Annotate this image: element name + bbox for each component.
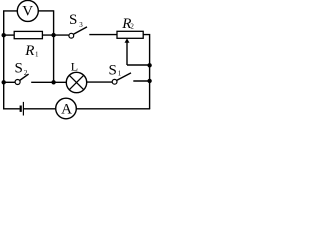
svg-text:1: 1	[35, 51, 39, 59]
svg-text:2: 2	[24, 69, 28, 77]
node S2-left junction	[2, 80, 6, 84]
wire lamp to S1	[87, 81, 113, 83]
wire voltmeter right to vertical bus	[38, 10, 53, 12]
wire middle vertical bus	[53, 10, 55, 82]
svg-text:S: S	[109, 62, 117, 78]
svg-text:3: 3	[79, 21, 83, 29]
wire battery to ammeter	[24, 108, 56, 110]
label S2	[15, 61, 28, 77]
label S1	[109, 62, 122, 78]
svg-text:V: V	[22, 3, 33, 19]
svg-text:L: L	[71, 60, 78, 74]
wire left vertical + bottom-left corner	[4, 11, 20, 109]
svg-text:S: S	[69, 12, 77, 28]
switch S2	[15, 74, 29, 84]
wire S2 to lamp	[31, 81, 66, 83]
wire S2 row left	[4, 81, 16, 83]
label S3	[69, 12, 83, 29]
rheostat R2	[117, 31, 143, 65]
battery	[21, 102, 24, 116]
label R1	[24, 43, 39, 59]
ammeter A	[56, 98, 77, 119]
node bus / lamp-row junction	[51, 80, 55, 84]
wire slider to right bus	[127, 64, 150, 66]
node S1 / right-bus junction	[147, 79, 151, 83]
switch S1	[112, 73, 131, 84]
node slider / right-bus junction	[147, 63, 151, 67]
svg-text:2: 2	[130, 23, 134, 31]
voltmeter V	[17, 0, 38, 21]
wire S3 to R2	[89, 34, 117, 36]
wire R2 right + right vertical bus	[143, 35, 149, 109]
node R1-left junction	[2, 33, 6, 37]
svg-text:A: A	[61, 102, 72, 118]
svg-text:S: S	[15, 61, 23, 77]
switch S3	[69, 27, 87, 38]
lamp L	[66, 72, 86, 92]
wire R1 row left	[4, 34, 15, 36]
label R2	[121, 16, 134, 32]
resistor R1	[14, 31, 42, 38]
wire R1 to S3	[42, 34, 68, 36]
svg-text:1: 1	[118, 69, 122, 77]
wire ammeter to right bus	[76, 108, 150, 110]
svg-text:R: R	[24, 43, 34, 59]
wire S1 to right bus	[133, 80, 149, 82]
node R1-right / bus junction	[51, 33, 55, 37]
